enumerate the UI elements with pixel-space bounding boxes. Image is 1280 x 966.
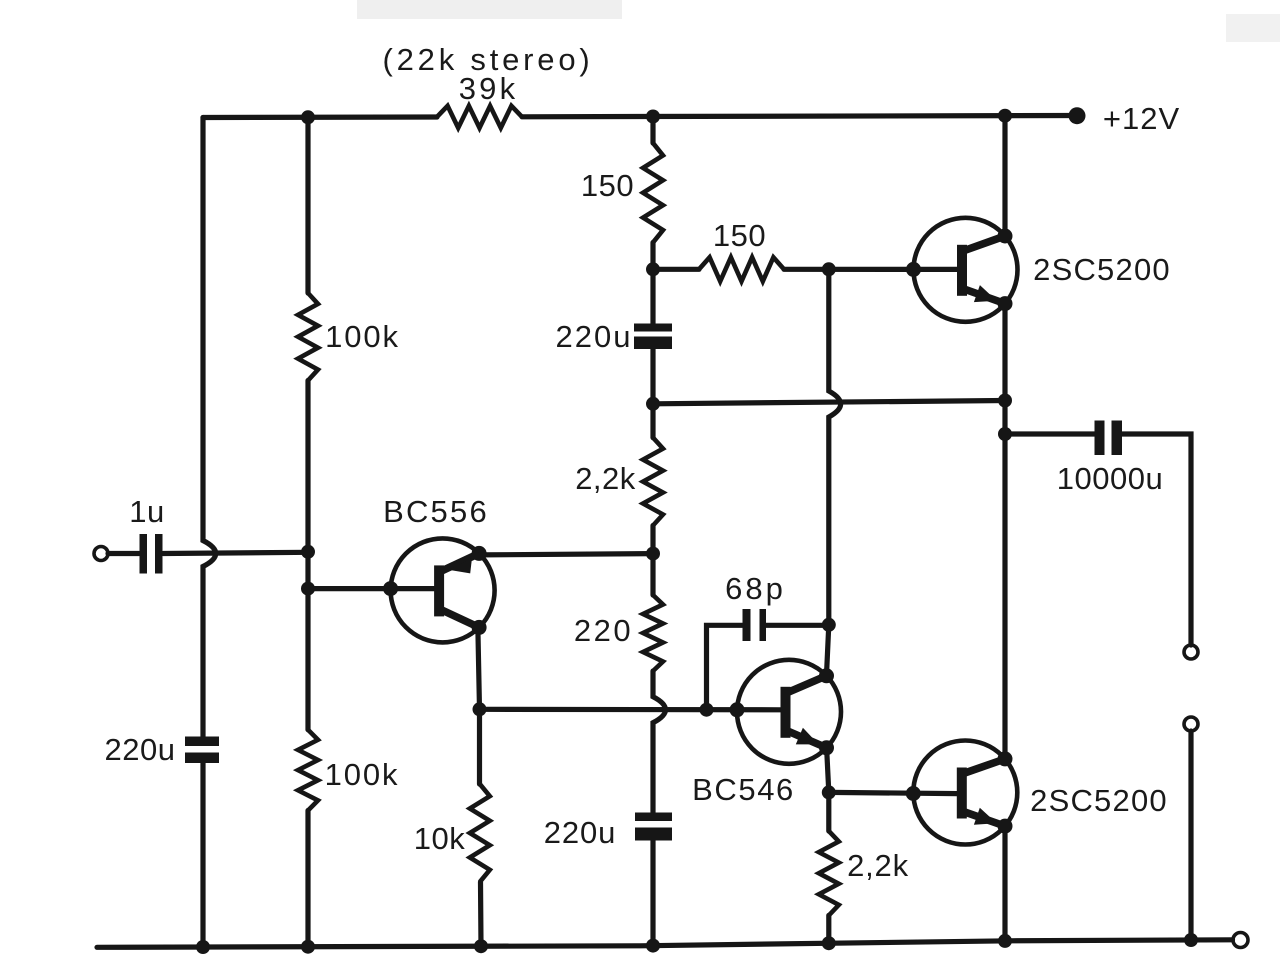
wire BC546 collector up (827, 625, 829, 675)
transistor BC556 (PNP) (383, 538, 495, 642)
resistor 100k lower bias (298, 730, 318, 811)
wire lower 2SC5200 base (829, 792, 958, 793)
svg-text:150: 150 (713, 218, 766, 253)
svg-text:220: 220 (574, 613, 633, 648)
node junction 68p / BC546 collector (822, 618, 836, 632)
wire output mid rail (653, 401, 1005, 404)
node junction BC556 collector / BC546 base (473, 702, 487, 716)
node junction 68p branch / base wire (700, 703, 714, 717)
wire input to 1u (108, 551, 140, 556)
wire BC556 collector down to base-wire node (478, 625, 480, 710)
node speaker terminal lower (1184, 717, 1198, 731)
wire column C to ground (650, 841, 655, 946)
svg-text:150: 150 (581, 168, 634, 203)
node ground terminal (1233, 933, 1248, 948)
wire 10k column (477, 709, 482, 784)
wire column B lower to ground (305, 811, 310, 947)
wire left column A upper (input node, hops over input wire) (203, 118, 216, 737)
node junction column C top rail (646, 110, 660, 124)
svg-text:2SC5200: 2SC5200 (1030, 783, 1168, 818)
capacitor 68p (743, 609, 751, 641)
wire column E top (upper 2SC5200 collector to +12V rail) (1002, 116, 1007, 235)
wire ground rail (97, 940, 1233, 948)
svg-text:+12V: +12V (1103, 101, 1180, 136)
node ground junction 10k (474, 939, 488, 953)
wire output to 10000u (1005, 431, 1095, 436)
svg-text:10000u: 10000u (1057, 461, 1163, 496)
transistor 2SC5200 lower (NPN) (906, 741, 1018, 845)
node +12V terminal dot (1069, 107, 1086, 124)
svg-text:2,2k: 2,2k (847, 848, 909, 883)
wire 68p right branch to column D (766, 623, 829, 628)
node junction input/column B (301, 545, 315, 559)
resistor 150 (vertical, column C) (643, 143, 663, 243)
wire column C 220u to 2,2k (650, 349, 655, 438)
svg-text:220u: 220u (105, 732, 176, 767)
wire column C 220 down, hops over BC546 base wire (653, 671, 666, 813)
wire top rail right segment to +12V (522, 116, 1077, 117)
svg-text:2SC5200: 2SC5200 (1033, 252, 1171, 287)
resistor 39k (22k stereo) feedback/supply (437, 106, 522, 128)
wire 2,2k lower to ground (826, 915, 831, 943)
transistor 2SC5200 upper (NPN) (906, 218, 1018, 322)
wire left column A lower to ground (200, 763, 205, 947)
wire column B (bias divider) (305, 117, 310, 293)
wire column C top (650, 117, 655, 144)
svg-text:BC556: BC556 (383, 494, 489, 529)
node ground junction column B (301, 940, 315, 954)
svg-text:100k: 100k (325, 757, 400, 792)
wire top rail left segment (node V+ feed) (203, 114, 437, 120)
node junction column B top rail (301, 110, 315, 124)
resistor 150 (horizontal) (699, 257, 784, 281)
node junction 10000u branch / column E (998, 427, 1012, 441)
svg-text:39k: 39k (459, 71, 519, 106)
node ground junction 2,2k lower (822, 936, 836, 950)
wire column B middle (305, 381, 310, 730)
wire BC556 base (308, 586, 436, 591)
node junction column C / BC556 emitter (646, 547, 660, 561)
wire 10000u to speaker terminal (1122, 434, 1191, 645)
node junction base wire/column B (301, 582, 315, 596)
node ground junction speaker return (1184, 933, 1198, 947)
wire BC546 base (480, 707, 782, 713)
node junction BC546 emitter / 2,2k / 2SC5200 base (822, 785, 836, 799)
wire 68p left branch down to base wire (707, 625, 743, 709)
wire 150 to 2SC5200 base (784, 267, 958, 272)
svg-text:BC546: BC546 (692, 772, 795, 807)
wire column C between 2,2k and 220 (650, 526, 655, 596)
capacitor 220u (lower middle) (635, 813, 672, 822)
node ground junction column C (646, 939, 660, 953)
scan artifact light band top (357, 0, 622, 19)
node junction column C / 150 horizontal (646, 262, 660, 276)
node speaker terminal upper (1184, 645, 1198, 659)
wire column E bottom (lower emitter to ground) (1002, 827, 1007, 941)
transistor BC546 (NPN) (730, 660, 842, 764)
node input terminal (94, 547, 108, 561)
svg-text:220u: 220u (544, 815, 617, 850)
resistor 2,2k (lower) (819, 831, 839, 915)
wire 150 horizontal branch (653, 267, 699, 272)
wire 1u to node B (163, 552, 308, 553)
capacitor 10000u output coupling (1095, 421, 1105, 456)
svg-text:2,2k: 2,2k (575, 461, 636, 496)
wire 10k to ground (478, 882, 484, 946)
wire column C 150 to 220u (650, 243, 655, 324)
wire BC556 emitter to column C (479, 554, 653, 555)
wire node to 2,2k lower (826, 792, 831, 831)
svg-text:100k: 100k (325, 319, 400, 354)
capacitor 220u (middle column) (634, 324, 672, 332)
node ground junction column E (998, 934, 1012, 948)
svg-text:220u: 220u (556, 319, 633, 354)
resistor 2,2k (column C) (643, 438, 663, 526)
wire speaker return to ground (1188, 731, 1193, 940)
node junction column D top (822, 262, 836, 276)
svg-text:68p: 68p (725, 571, 786, 606)
wire column D upper (hops over output wire) (829, 269, 841, 625)
svg-text:10k: 10k (414, 821, 465, 856)
svg-text:1u: 1u (129, 494, 164, 529)
node ground junction column A (196, 940, 210, 954)
wire BC546 emitter down to node (826, 744, 828, 793)
node junction column C / output wire (646, 397, 660, 411)
capacitor 1u input coupling (140, 534, 148, 574)
resistor 10k (470, 784, 490, 882)
wire column E middle (emitter to lower collector) (1002, 306, 1007, 759)
resistor 100k upper bias (298, 293, 318, 381)
capacitor 220u input decoupling (left column) (185, 737, 219, 747)
node junction output wire / column E (998, 394, 1012, 408)
resistor 220 (column C) (643, 595, 663, 671)
node junction column E / top rail (998, 109, 1012, 123)
